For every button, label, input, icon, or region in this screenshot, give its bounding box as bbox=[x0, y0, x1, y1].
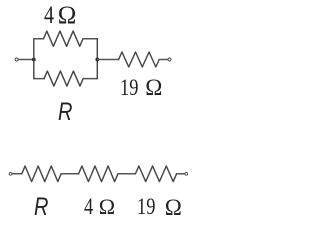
resistor 19 ohm (top circuit) bbox=[119, 52, 160, 67]
wire R to 4 ohm bbox=[61, 173, 79, 175]
wire top branch lead-out bbox=[83, 38, 97, 40]
wire bottom branch lead-in bbox=[34, 78, 44, 80]
wire right vertical of parallel pair bbox=[96, 39, 98, 79]
label R (top circuit) bbox=[58, 98, 72, 127]
label 19 ohm (top circuit) bbox=[120, 75, 138, 101]
wire terminal to left node bbox=[18, 59, 34, 61]
left terminal (top circuit) bbox=[15, 58, 18, 61]
resistor 4 ohm (top branch) bbox=[44, 31, 84, 46]
right terminal (top circuit) bbox=[168, 58, 171, 61]
wire 4 ohm to 19 ohm bbox=[118, 173, 135, 175]
resistor 4 ohm (bottom circuit) bbox=[79, 166, 118, 182]
label R (bottom circuit) bbox=[34, 193, 48, 222]
wire 19 ohm to right terminal bbox=[159, 59, 168, 61]
wire terminal to R bbox=[12, 173, 22, 175]
wire node B to 19 ohm bbox=[97, 59, 118, 61]
node B (right junction dot) bbox=[95, 58, 99, 62]
wire left vertical of parallel pair bbox=[33, 39, 35, 79]
resistor R (bottom branch) bbox=[44, 71, 83, 86]
label 4 ohm (top circuit) bbox=[44, 2, 54, 30]
node A (left junction dot) bbox=[32, 58, 36, 62]
wire 19 ohm to right terminal bbox=[177, 173, 185, 175]
label 4 ohm (bottom circuit) bbox=[84, 194, 93, 220]
wire bottom branch lead-out bbox=[83, 78, 97, 80]
resistor 19 ohm (bottom circuit) bbox=[135, 166, 176, 182]
right terminal (bottom circuit) bbox=[185, 172, 188, 175]
left terminal (bottom circuit) bbox=[9, 172, 12, 175]
wire top branch lead-in bbox=[34, 38, 44, 40]
resistor R (bottom circuit) bbox=[22, 166, 61, 182]
label 19 ohm (bottom circuit) bbox=[137, 194, 155, 220]
